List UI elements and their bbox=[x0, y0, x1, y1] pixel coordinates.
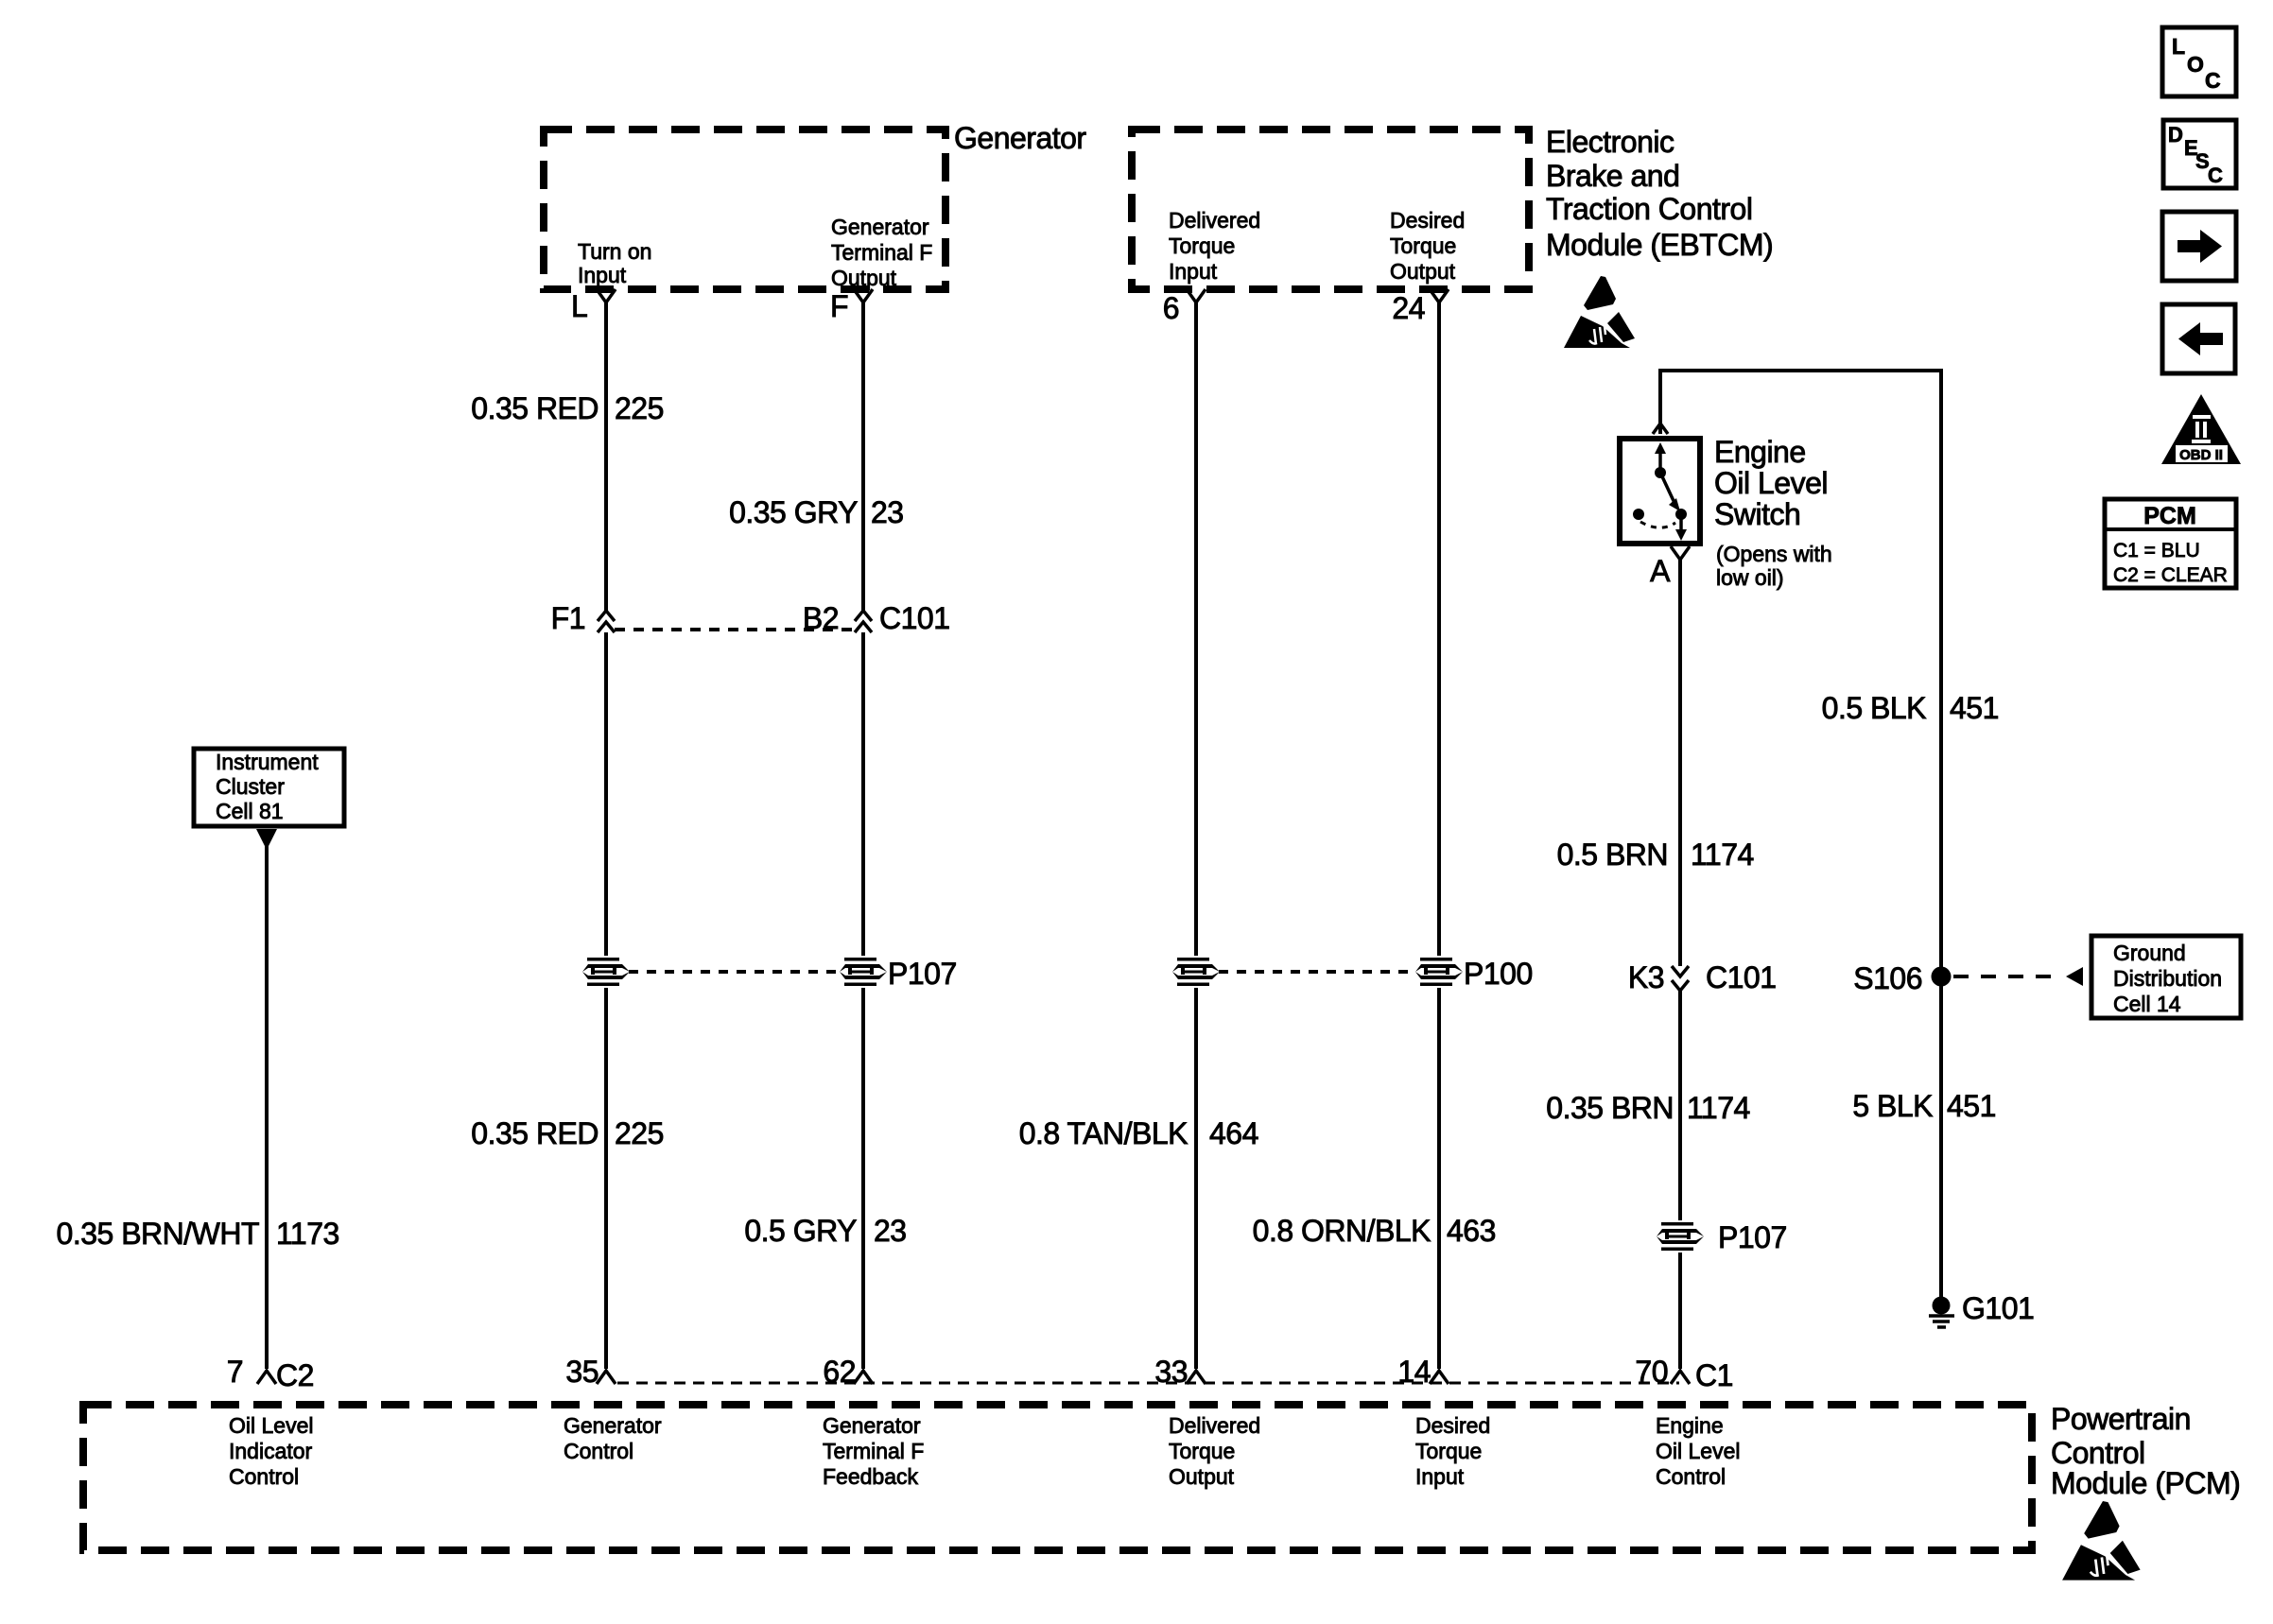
svg-text:C: C bbox=[2208, 164, 2223, 187]
svg-text:Brake and: Brake and bbox=[1546, 159, 1679, 193]
chevron above oil level switch bbox=[1653, 423, 1668, 434]
svg-text:0.35 RED: 0.35 RED bbox=[471, 1116, 599, 1150]
svg-text:Torque: Torque bbox=[1415, 1439, 1482, 1463]
svg-text:Control: Control bbox=[564, 1439, 633, 1463]
svg-text:Terminal F: Terminal F bbox=[823, 1439, 924, 1463]
svg-text:0.5 BRN: 0.5 BRN bbox=[1557, 838, 1668, 872]
svg-text:Traction Control: Traction Control bbox=[1546, 192, 1752, 226]
svg-text:Cell 14: Cell 14 bbox=[2113, 992, 2181, 1016]
svg-text:Module (PCM): Module (PCM) bbox=[2051, 1466, 2240, 1500]
svg-text:PCM: PCM bbox=[2143, 503, 2196, 529]
svg-text:Delivered: Delivered bbox=[1169, 1413, 1260, 1438]
dashed line C101 between F1 and B2 bbox=[615, 628, 855, 631]
wire from switch top to BLK wire bbox=[1660, 371, 1941, 1297]
svg-text:Oil Level: Oil Level bbox=[1656, 1439, 1740, 1463]
PCM connector C1 dashed row bbox=[617, 1382, 1679, 1385]
svg-text:Ground: Ground bbox=[2113, 941, 2186, 965]
svg-text:Oil Level: Oil Level bbox=[229, 1413, 313, 1438]
engine oil level switch label bbox=[1714, 435, 1832, 590]
svg-text:Torque: Torque bbox=[1390, 233, 1456, 258]
svg-text:33: 33 bbox=[1154, 1355, 1188, 1389]
svg-text:O: O bbox=[2187, 52, 2204, 77]
PCM engine oil level control label bbox=[1656, 1413, 1740, 1489]
svg-text:F: F bbox=[830, 289, 848, 323]
svg-text:L: L bbox=[571, 289, 587, 323]
svg-text:Generator: Generator bbox=[823, 1413, 921, 1438]
svg-text:Engine: Engine bbox=[1656, 1413, 1724, 1438]
svg-text:Generator: Generator bbox=[831, 215, 929, 239]
PCM generator terminal F feedback label bbox=[823, 1413, 924, 1489]
svg-text:0.35 BRN: 0.35 BRN bbox=[1546, 1091, 1674, 1125]
switch dashed travel arc bbox=[1640, 522, 1675, 527]
svg-text:Input: Input bbox=[1415, 1464, 1465, 1489]
svg-text:1173: 1173 bbox=[276, 1217, 339, 1251]
switch open contact dot bbox=[1633, 509, 1644, 520]
svg-text:P107: P107 bbox=[1718, 1220, 1787, 1254]
ground distribution box bbox=[2091, 936, 2241, 1018]
arrowhead into ground distribution box bbox=[2066, 967, 2083, 986]
svg-text:Control: Control bbox=[2051, 1436, 2145, 1470]
connector C101 chevrons B2 bbox=[855, 611, 872, 632]
svg-text:Control: Control bbox=[229, 1464, 299, 1489]
switch contact arrow up bbox=[1655, 442, 1666, 478]
svg-text:C101: C101 bbox=[879, 601, 950, 635]
svg-text:Electronic: Electronic bbox=[1546, 125, 1674, 159]
svg-text:P107: P107 bbox=[888, 957, 957, 991]
svg-text:D: D bbox=[2168, 123, 2183, 147]
svg-text:Module (EBTCM): Module (EBTCM) bbox=[1546, 228, 1773, 262]
svg-text:C1 = BLU: C1 = BLU bbox=[2113, 540, 2200, 561]
PCM delivered torque output label bbox=[1169, 1413, 1260, 1489]
svg-text:Delivered: Delivered bbox=[1169, 208, 1260, 233]
generator dashed box bbox=[544, 130, 946, 289]
wire generator control (RED) lower bbox=[604, 632, 608, 1369]
OBD II triangle icon bbox=[2161, 394, 2241, 464]
grommet P107 on GRY wire bbox=[839, 956, 888, 988]
wire generator control (RED) upper bbox=[604, 302, 608, 611]
splice S106 bbox=[1932, 967, 1952, 987]
svg-text:Torque: Torque bbox=[1169, 1439, 1235, 1463]
svg-text:Terminal F: Terminal F bbox=[831, 240, 932, 265]
svg-text:Torque: Torque bbox=[1169, 233, 1235, 258]
svg-text:Input: Input bbox=[1169, 259, 1218, 284]
svg-text:P100: P100 bbox=[1464, 957, 1533, 991]
svg-text:5 BLK: 5 BLK bbox=[1852, 1089, 1933, 1123]
PCM ESD symbol bbox=[2062, 1501, 2141, 1581]
PCM dashed box bbox=[83, 1405, 2032, 1550]
grommet P100 on ORN/BLK wire bbox=[1414, 956, 1464, 988]
svg-text:Engine: Engine bbox=[1714, 435, 1806, 469]
svg-text:Distribution: Distribution bbox=[2113, 966, 2222, 991]
svg-text:Control: Control bbox=[1656, 1464, 1726, 1489]
svg-text:Desired: Desired bbox=[1415, 1413, 1490, 1438]
svg-text:A: A bbox=[1650, 554, 1671, 588]
svg-text:Powertrain: Powertrain bbox=[2051, 1402, 2191, 1436]
svg-text:Feedback: Feedback bbox=[823, 1464, 919, 1489]
svg-text:Output: Output bbox=[831, 266, 897, 290]
svg-text:C: C bbox=[2205, 68, 2221, 93]
wire terminal F (GRY) lower bbox=[861, 632, 865, 1369]
wire terminal F (GRY) upper bbox=[861, 302, 865, 611]
PCM generator control label bbox=[564, 1413, 662, 1463]
svg-text:S106: S106 bbox=[1853, 961, 1922, 995]
svg-text:K3: K3 bbox=[1628, 960, 1664, 994]
PCM module label bbox=[2051, 1402, 2240, 1500]
svg-text:0.35 GRY: 0.35 GRY bbox=[729, 495, 858, 529]
svg-text:C101: C101 bbox=[1706, 960, 1777, 994]
svg-text:OBD II: OBD II bbox=[2179, 447, 2223, 463]
svg-text:L: L bbox=[2172, 34, 2185, 59]
svg-text:C2: C2 bbox=[276, 1358, 314, 1392]
svg-text:0.35 RED: 0.35 RED bbox=[471, 391, 599, 425]
svg-text:Turn on: Turn on bbox=[578, 239, 651, 264]
svg-text:Cluster: Cluster bbox=[216, 774, 285, 799]
right arrow icon box bbox=[2162, 212, 2236, 281]
svg-text:7: 7 bbox=[227, 1355, 243, 1389]
svg-text:Generator: Generator bbox=[954, 121, 1086, 155]
svg-text:1174: 1174 bbox=[1691, 838, 1754, 872]
svg-text:62: 62 bbox=[823, 1355, 856, 1389]
svg-text:451: 451 bbox=[1950, 691, 1999, 725]
svg-text:23: 23 bbox=[871, 495, 904, 529]
svg-text:35: 35 bbox=[565, 1355, 599, 1389]
svg-text:225: 225 bbox=[615, 391, 664, 425]
LOC icon box bbox=[2162, 27, 2236, 96]
svg-text:Indicator: Indicator bbox=[229, 1439, 313, 1463]
svg-text:G101: G101 bbox=[1962, 1291, 2034, 1325]
wire engine oil level (BRN) lower bbox=[1678, 991, 1682, 1369]
grommet on TAN/BLK wire bbox=[1171, 956, 1221, 988]
DESC icon box bbox=[2163, 120, 2236, 188]
svg-text:0.35 BRN/WHT: 0.35 BRN/WHT bbox=[57, 1217, 259, 1251]
left arrow icon box bbox=[2162, 304, 2235, 373]
svg-text:463: 463 bbox=[1447, 1214, 1496, 1248]
switch arm with arrowhead bbox=[1661, 475, 1687, 520]
svg-text:70: 70 bbox=[1635, 1355, 1668, 1389]
svg-text:(Opens with: (Opens with bbox=[1716, 542, 1832, 566]
wire delivered torque (TAN/BLK) bbox=[1194, 302, 1198, 1369]
instrument cluster box bbox=[194, 749, 344, 826]
connector C101 chevrons K3 bbox=[1672, 966, 1689, 991]
svg-text:Desired: Desired bbox=[1390, 208, 1465, 233]
svg-text:Output: Output bbox=[1169, 1464, 1235, 1489]
grommet on RED wire bbox=[581, 956, 631, 988]
svg-text:6: 6 bbox=[1163, 291, 1179, 325]
dashed line between grommets P107 bbox=[629, 970, 841, 974]
svg-text:0.8 TAN/BLK: 0.8 TAN/BLK bbox=[1019, 1116, 1188, 1150]
dashed line to ground distribution bbox=[1953, 975, 2063, 978]
wire desired torque (ORN/BLK) bbox=[1437, 302, 1441, 1369]
engine oil level switch box bbox=[1620, 439, 1700, 544]
svg-text:Input: Input bbox=[578, 263, 627, 287]
switch contact arrow down bbox=[1675, 518, 1687, 541]
connector C101 chevrons F1 bbox=[598, 611, 615, 632]
svg-text:225: 225 bbox=[615, 1116, 664, 1150]
svg-text:C2 = CLEAR: C2 = CLEAR bbox=[2113, 564, 2228, 586]
arrowhead from instrument cluster bbox=[256, 829, 277, 850]
wire engine oil level (BRN) upper bbox=[1678, 560, 1682, 966]
EBTCM label bbox=[1546, 125, 1773, 262]
wire oil level indicator (BRN/WHT) bbox=[265, 843, 269, 1369]
ground G101 bbox=[1929, 1297, 1954, 1328]
svg-text:Oil Level: Oil Level bbox=[1714, 466, 1828, 500]
PCM desired torque input label bbox=[1415, 1413, 1490, 1489]
EBTCM dashed box bbox=[1132, 130, 1529, 289]
svg-text:Switch: Switch bbox=[1714, 497, 1800, 531]
grommet P107 on BRN wire bbox=[1656, 1220, 1705, 1253]
svg-text:23: 23 bbox=[874, 1214, 907, 1248]
svg-text:Instrument: Instrument bbox=[216, 750, 319, 774]
svg-text:0.8 ORN/BLK: 0.8 ORN/BLK bbox=[1253, 1214, 1431, 1248]
svg-text:464: 464 bbox=[1209, 1116, 1258, 1150]
PCM connector legend box bbox=[2105, 499, 2236, 588]
EBTCM ESD symbol bbox=[1564, 276, 1635, 348]
svg-text:1174: 1174 bbox=[1687, 1091, 1750, 1125]
svg-text:0.5 GRY: 0.5 GRY bbox=[744, 1214, 857, 1248]
svg-text:F1: F1 bbox=[551, 601, 585, 635]
svg-text:Cell 81: Cell 81 bbox=[216, 799, 284, 823]
svg-text:0.5 BLK: 0.5 BLK bbox=[1822, 691, 1927, 725]
svg-text:C1: C1 bbox=[1695, 1358, 1733, 1392]
svg-text:Output: Output bbox=[1390, 259, 1456, 284]
svg-text:Generator: Generator bbox=[564, 1413, 662, 1438]
dashed line between grommets P100 bbox=[1219, 970, 1416, 974]
PCM oil level indicator control label bbox=[229, 1413, 313, 1489]
svg-text:14: 14 bbox=[1397, 1355, 1431, 1389]
svg-text:low oil): low oil) bbox=[1716, 565, 1784, 590]
svg-text:24: 24 bbox=[1392, 291, 1425, 325]
svg-text:451: 451 bbox=[1947, 1089, 1996, 1123]
